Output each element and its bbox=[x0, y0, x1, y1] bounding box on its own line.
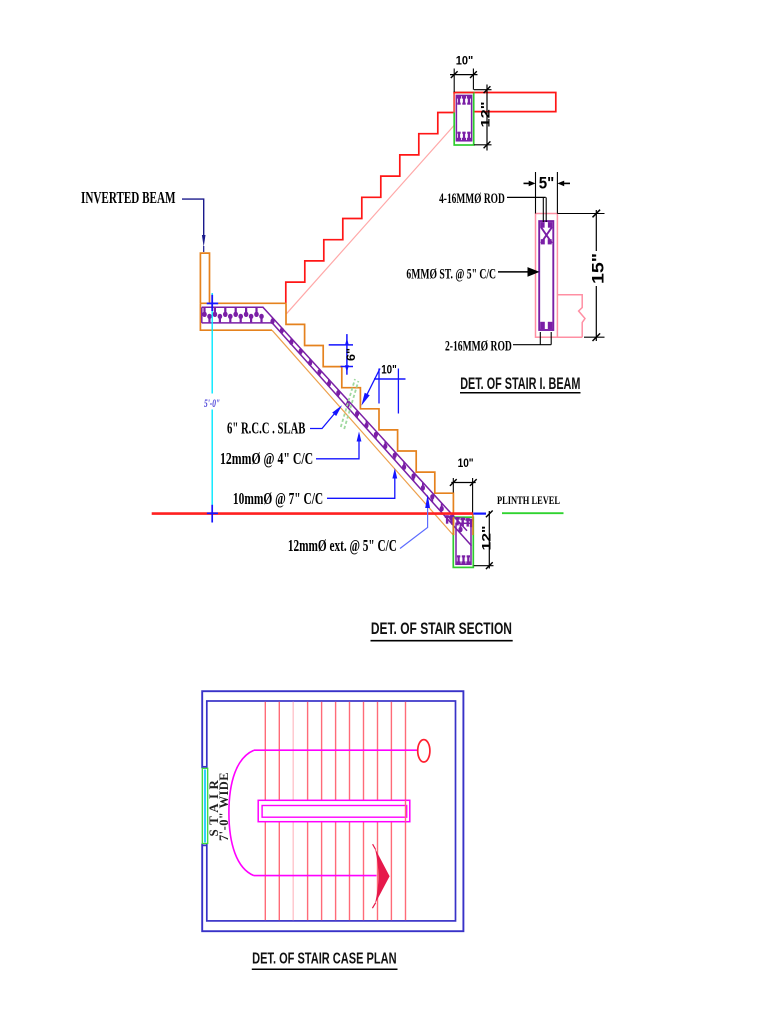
step dimension 6in (blue) bbox=[346, 334, 348, 375]
title DET. OF STAIR CASE PLAN bbox=[252, 949, 396, 966]
svg-text:DET. OF STAIR SECTION: DET. OF STAIR SECTION bbox=[371, 620, 512, 638]
inverted beam (orange) bbox=[200, 253, 209, 303]
svg-text:7'-0" WIDE: 7'-0" WIDE bbox=[216, 772, 231, 841]
storey height line (cyan) bbox=[211, 293, 213, 505]
plinth line (red) bbox=[152, 512, 473, 515]
plinth level underline (green) bbox=[502, 512, 564, 514]
svg-text:DET. OF STAIR CASE PLAN: DET. OF STAIR CASE PLAN bbox=[252, 949, 396, 966]
door frame (green) bbox=[202, 768, 207, 843]
start circle (red) bbox=[418, 740, 430, 762]
svg-text:5'-0": 5'-0" bbox=[204, 396, 220, 410]
svg-text:4-16MMØ ROD: 4-16MMØ ROD bbox=[439, 190, 505, 207]
label PLINTH LEVEL bbox=[497, 495, 560, 508]
svg-text:12": 12" bbox=[481, 102, 493, 128]
datum cross bottom (blue) bbox=[207, 512, 218, 514]
leader RCC slab (blue) bbox=[310, 410, 338, 429]
top landing slab (red) bbox=[474, 93, 556, 112]
walk line curve (magenta) bbox=[229, 750, 254, 875]
upper flight steps (red) bbox=[286, 113, 454, 304]
dimension 12in top beam bbox=[474, 89, 492, 91]
svg-text:2-16MMØ ROD: 2-16MMØ ROD bbox=[445, 337, 512, 354]
I BEAM DETAIL bbox=[406, 172, 607, 393]
bottom beam top rebar row: pins hanging from plinth bbox=[445, 515, 473, 527]
svg-text:DET. OF STAIR I. BEAM: DET. OF STAIR I. BEAM bbox=[460, 374, 580, 393]
slab band diagonal (purple) bbox=[263, 307, 468, 531]
svg-text:15": 15" bbox=[589, 253, 608, 284]
label INVERTED BEAM bbox=[81, 189, 176, 208]
walk line top (magenta) bbox=[254, 749, 418, 751]
tread line crossing rail bbox=[405, 800, 407, 821]
red outline over beam top bbox=[453, 93, 455, 113]
title DET. OF STAIR I. BEAM bbox=[460, 374, 580, 393]
bottom beam stirrup (purple) bbox=[456, 523, 471, 564]
label 12mm ext bbox=[288, 537, 397, 556]
label 2-16MM ROD bbox=[445, 337, 512, 354]
svg-text:5": 5" bbox=[539, 174, 555, 193]
top rebar 4 bars with cross bbox=[540, 222, 552, 244]
middle rail outer (magenta) bbox=[258, 800, 410, 821]
svg-text:12mmØ ext. @ 5" C/C: 12mmØ ext. @ 5" C/C bbox=[288, 537, 397, 556]
middle rail inner (magenta) bbox=[262, 806, 407, 818]
datum cross top (blue) bbox=[207, 302, 219, 304]
label 4-16MM ROD bbox=[439, 190, 505, 207]
adjoining slab (pink) bbox=[557, 295, 585, 337]
bottom beam section (green outline) bbox=[453, 517, 473, 567]
svg-text:10mmØ @ 7" C/C: 10mmØ @ 7" C/C bbox=[233, 490, 323, 509]
svg-text:6" R.C.C . SLAB: 6" R.C.C . SLAB bbox=[227, 419, 306, 438]
svg-text:10": 10" bbox=[381, 365, 397, 377]
door caps (blue) bbox=[202, 766, 207, 768]
label 12mm bbox=[220, 450, 313, 469]
slab band landing (purple) bbox=[202, 306, 263, 308]
door leaf (cyan) bbox=[204, 770, 206, 843]
svg-text:10": 10" bbox=[458, 458, 474, 470]
outer wall bbox=[202, 691, 463, 931]
stirrup (purple) bbox=[539, 221, 553, 330]
svg-text:6MMØ ST. @ 5" C/C: 6MMØ ST. @ 5" C/C bbox=[406, 266, 496, 283]
label 10mm bbox=[233, 490, 323, 509]
door opening white mask bbox=[201, 768, 209, 843]
leader INVERTED BEAM (navy) bbox=[182, 199, 204, 235]
svg-text:PLINTH LEVEL: PLINTH LEVEL bbox=[497, 495, 560, 508]
dimension 15in bbox=[595, 210, 597, 341]
leader 10mm (blue) bbox=[327, 477, 395, 498]
rebar pins bbox=[202, 308, 462, 532]
svg-text:10": 10" bbox=[456, 56, 474, 68]
label STAIR 7'-0" WIDE (rotated) bbox=[206, 772, 231, 841]
dimension 12in bottom beam bbox=[488, 511, 490, 569]
top beam bottom rebar: 3 pins standing bbox=[457, 132, 471, 141]
leader 12mm (blue) bbox=[316, 438, 359, 459]
slab break marks (green) bbox=[341, 379, 355, 427]
label 5'-0" bbox=[203, 394, 222, 410]
upper flight soffit line (pink) bbox=[286, 125, 454, 313]
top beam top rebar: 3 T-pins hanging bbox=[457, 96, 471, 105]
lower flight soffit (orange thin) bbox=[272, 330, 453, 535]
svg-text:12mmØ @ 4" C/C: 12mmØ @ 4" C/C bbox=[220, 450, 313, 469]
bottom beam bottom rebar: 3 pins standing bbox=[457, 555, 471, 564]
top beam section (green outline) bbox=[454, 93, 474, 146]
PLAN DRAWING bbox=[201, 691, 464, 969]
svg-text:INVERTED BEAM: INVERTED BEAM bbox=[81, 189, 176, 208]
beam outline (pink) bbox=[536, 214, 558, 338]
inner wall bbox=[207, 701, 456, 921]
svg-text:12": 12" bbox=[482, 526, 494, 551]
direction arrow (crimson) bbox=[375, 848, 390, 904]
bottom rebar 2 bars bbox=[540, 322, 552, 329]
blue segment at plinth right bbox=[473, 512, 486, 514]
top beam stirrup (purple) bbox=[456, 95, 471, 140]
landing slab outline (orange) bbox=[200, 303, 286, 330]
leader 12mm ext (blue) bbox=[400, 508, 428, 549]
label 6MM ST bbox=[406, 266, 496, 283]
label 6in RCC SLAB bbox=[227, 419, 306, 438]
orange overlaps on bottom beam bbox=[472, 514, 474, 535]
walk line bottom (magenta) bbox=[254, 875, 377, 877]
SECTION DRAWING bbox=[81, 56, 564, 641]
tread lines (salmon) bbox=[265, 702, 405, 920]
svg-text:6": 6" bbox=[346, 348, 358, 361]
lower flight steps (orange) bbox=[286, 303, 453, 535]
title DET. OF STAIR SECTION bbox=[371, 620, 512, 638]
